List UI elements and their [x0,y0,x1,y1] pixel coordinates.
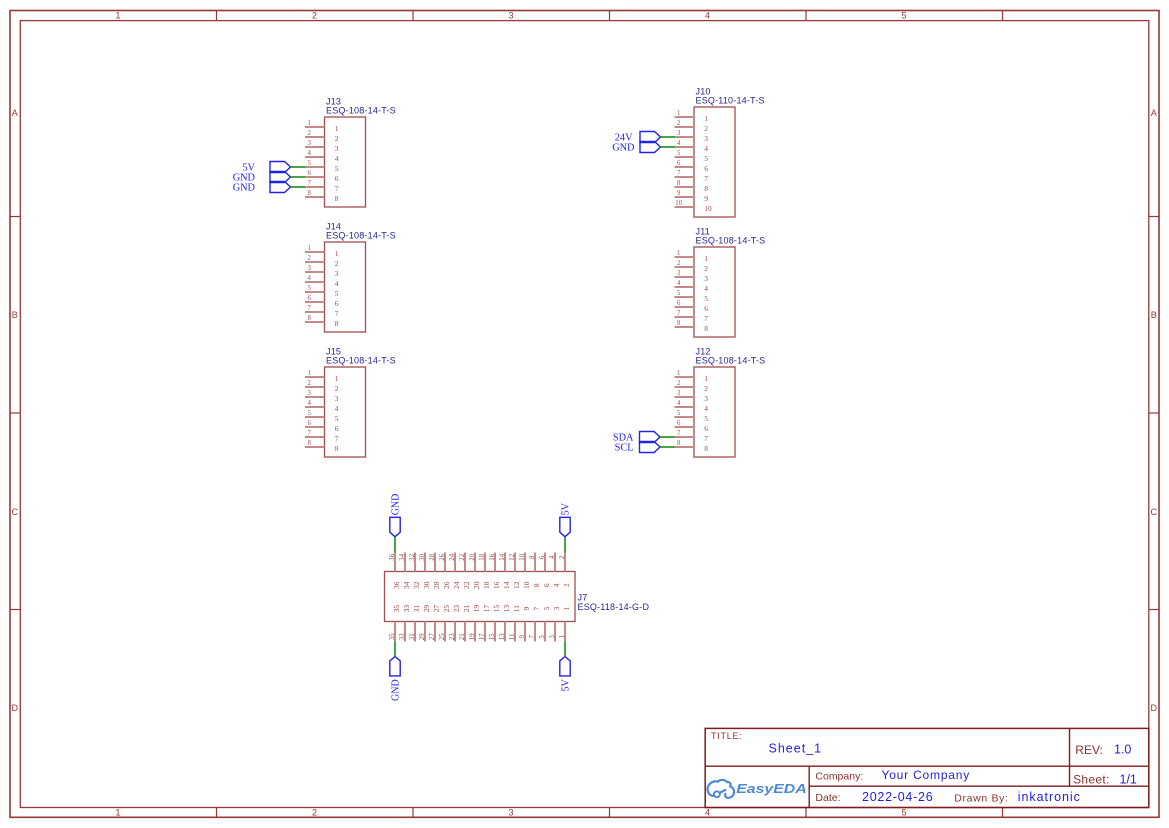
svg-text:10: 10 [522,581,531,589]
connector J14 (ESQ-108-14-T-S) [325,242,366,332]
J15 value ESQ-108-14-T-S [326,356,396,366]
svg-text:6: 6 [677,300,681,307]
J14 reference designator [326,222,341,232]
svg-text:28: 28 [429,553,436,560]
svg-text:25: 25 [439,633,446,640]
svg-text:7: 7 [677,310,681,317]
svg-text:5: 5 [704,154,708,163]
svg-text:11: 11 [509,634,516,641]
svg-text:4: 4 [335,404,339,413]
svg-text:20: 20 [469,553,476,560]
J10 reference designator [696,87,711,97]
svg-text:3: 3 [552,606,561,610]
svg-text:35: 35 [392,605,401,613]
svg-text:5: 5 [307,160,311,167]
svg-text:5: 5 [677,150,681,157]
svg-text:8: 8 [307,440,311,447]
svg-text:2: 2 [559,555,566,559]
svg-text:6: 6 [307,295,311,302]
net flag GND on J7 pin 35 [390,657,402,701]
svg-text:ESQ-108-14-T-S: ESQ-108-14-T-S [696,236,766,246]
svg-text:6: 6 [677,160,681,167]
svg-text:3: 3 [508,10,513,20]
svg-text:6: 6 [704,164,708,173]
svg-text:4: 4 [335,154,339,163]
svg-text:A: A [12,108,18,118]
svg-text:8: 8 [335,444,339,453]
svg-text:26: 26 [439,553,446,560]
svg-text:TITLE:: TITLE: [711,731,743,741]
svg-text:8: 8 [529,555,536,559]
svg-text:5: 5 [307,410,311,417]
svg-text:30: 30 [422,581,431,589]
J12 value ESQ-108-14-T-S [696,356,766,366]
J12 pin numbers [677,370,708,453]
wire net GND to J7 pin 35 [394,642,396,657]
svg-text:7: 7 [335,434,339,443]
svg-text:27: 27 [432,605,441,613]
svg-text:B: B [1151,310,1157,320]
svg-text:6: 6 [704,424,708,433]
svg-text:GND: GND [390,494,401,516]
J11 pin numbers [677,250,708,333]
connector J15 (ESQ-108-14-T-S) [325,367,366,457]
svg-text:24: 24 [449,553,456,560]
svg-text:22: 22 [459,553,466,560]
svg-text:5: 5 [677,290,681,297]
svg-text:1: 1 [335,374,339,383]
svg-text:2: 2 [335,384,339,393]
svg-text:13: 13 [502,605,511,613]
svg-text:2: 2 [307,255,311,262]
svg-text:32: 32 [412,581,421,589]
svg-text:6: 6 [307,420,311,427]
title block [705,728,1149,807]
net flag 5V on J7 pin 2 [560,502,572,537]
svg-text:GND: GND [390,679,401,701]
svg-text:SCL: SCL [615,442,634,453]
svg-text:6: 6 [307,170,311,177]
net flag SDA on J12 pin 7 [613,432,660,444]
svg-text:6: 6 [542,583,551,587]
svg-text:9: 9 [522,606,531,610]
J7 pin numbers [389,553,571,640]
J10 pins 1-10 [675,117,695,207]
svg-text:26: 26 [442,581,451,589]
svg-text:6: 6 [677,420,681,427]
svg-text:4: 4 [677,400,681,407]
svg-text:5V: 5V [560,679,571,692]
svg-text:4: 4 [307,150,311,157]
svg-text:16: 16 [492,581,501,589]
svg-text:Your Company: Your Company [882,768,971,782]
J11 pins 1-8 [675,257,695,327]
svg-text:6: 6 [539,555,546,559]
svg-text:ESQ-110-14-T-S: ESQ-110-14-T-S [696,96,765,106]
net flag GND on J10 pin 4 [612,142,660,154]
svg-text:B: B [12,310,18,320]
svg-text:23: 23 [449,633,456,640]
svg-text:1/1: 1/1 [1120,773,1137,787]
svg-text:2: 2 [335,134,339,143]
svg-text:8: 8 [704,324,708,333]
svg-text:ESQ-108-14-T-S: ESQ-108-14-T-S [326,356,396,366]
J13 reference designator [326,97,341,107]
svg-text:35: 35 [389,633,396,640]
svg-text:ESQ-108-14-T-S: ESQ-108-14-T-S [696,356,766,366]
svg-text:2: 2 [307,380,311,387]
J13 pins 1-8 [305,127,325,197]
svg-text:7: 7 [704,314,708,323]
net flag 5V on J13 pin 5 [242,162,290,174]
svg-text:7: 7 [677,430,681,437]
svg-text:7: 7 [704,174,708,183]
J15 reference designator [326,347,341,357]
svg-text:3: 3 [508,808,513,818]
svg-text:7: 7 [335,309,339,318]
svg-text:7: 7 [704,434,708,443]
wire net 5V to J7 pin 1 [564,642,566,657]
svg-text:1: 1 [307,370,310,377]
svg-text:8: 8 [307,315,311,322]
svg-text:4: 4 [704,144,708,153]
svg-text:3: 3 [307,390,311,397]
svg-text:4: 4 [677,140,681,147]
connector J11 (ESQ-108-14-T-S) [694,247,735,337]
svg-text:ESQ-118-14-G-D: ESQ-118-14-G-D [578,602,650,612]
svg-text:ESQ-108-14-T-S: ESQ-108-14-T-S [326,106,396,116]
svg-text:4: 4 [705,10,710,20]
svg-text:3: 3 [335,394,339,403]
svg-text:1: 1 [704,114,708,123]
svg-text:19: 19 [469,633,476,640]
svg-text:14: 14 [502,581,511,589]
svg-text:18: 18 [479,553,486,560]
svg-text:Drawn By:: Drawn By: [954,793,1008,805]
svg-text:GND: GND [612,142,635,153]
wire net 5V to J13 pin 5 [291,166,306,168]
svg-text:1: 1 [704,374,708,383]
svg-text:28: 28 [432,581,441,589]
J14 pins 1-8 [305,252,325,322]
svg-text:12: 12 [509,553,516,560]
svg-text:15: 15 [492,605,501,613]
svg-text:1: 1 [307,245,310,252]
svg-text:11: 11 [512,605,521,612]
svg-text:5: 5 [704,414,708,423]
connector J10 (ESQ-110-14-T-S) [694,107,735,217]
svg-text:3: 3 [677,130,681,137]
svg-text:3: 3 [704,274,708,283]
net flag GND on J7 pin 36 [390,494,402,537]
svg-text:30: 30 [419,553,426,560]
svg-text:15: 15 [489,633,496,640]
svg-text:19: 19 [472,605,481,613]
J7 value ESQ-118-14-G-D [578,602,650,612]
svg-text:34: 34 [399,553,406,560]
connector J7 (ESQ-118-14-G-D) [385,572,576,622]
svg-text:9: 9 [704,194,708,203]
svg-text:23: 23 [452,605,461,613]
svg-text:7: 7 [529,635,536,639]
svg-text:6: 6 [335,174,339,183]
svg-text:31: 31 [409,633,416,640]
svg-text:8: 8 [704,444,708,453]
svg-text:4: 4 [549,555,556,559]
svg-text:D: D [12,703,19,713]
svg-text:5: 5 [539,635,546,639]
svg-text:1: 1 [335,249,339,258]
svg-text:8: 8 [677,320,681,327]
svg-text:3: 3 [307,265,311,272]
J11 value ESQ-108-14-T-S [696,236,766,246]
wire net GND to J13 pin 7 [291,186,306,188]
J13 value ESQ-108-14-T-S [326,106,396,116]
svg-text:8: 8 [704,184,708,193]
svg-text:27: 27 [429,633,436,640]
svg-text:8: 8 [335,319,339,328]
svg-text:33: 33 [402,605,411,613]
svg-text:C: C [12,507,19,517]
svg-text:25: 25 [442,605,451,613]
svg-text:3: 3 [335,144,339,153]
svg-text:1: 1 [335,124,339,133]
wire net GND to J7 pin 36 [394,537,396,553]
svg-text:3: 3 [335,269,339,278]
svg-text:4: 4 [552,583,561,587]
J10 value ESQ-110-14-T-S [696,96,765,106]
svg-text:ESQ-108-14-T-S: ESQ-108-14-T-S [326,231,396,241]
J7 top pins (even 36-2) [395,553,565,572]
net flag SCL on J12 pin 8 [615,442,660,454]
svg-text:7: 7 [677,170,681,177]
svg-text:21: 21 [462,605,471,613]
wire net SCL to J12 pin 8 [660,446,675,448]
svg-text:2: 2 [335,259,339,268]
J7 bottom pins (odd 35-1) [395,622,565,642]
svg-text:14: 14 [499,553,506,560]
svg-text:5: 5 [901,10,906,20]
svg-text:Sheet_1: Sheet_1 [769,742,823,756]
svg-text:6: 6 [704,304,708,313]
connector J12 (ESQ-108-14-T-S) [694,367,735,457]
svg-text:5: 5 [704,294,708,303]
svg-text:4: 4 [307,275,311,282]
svg-text:5: 5 [335,289,339,298]
svg-text:inkatronic: inkatronic [1018,790,1081,804]
svg-text:1: 1 [115,10,120,20]
svg-text:2: 2 [704,384,708,393]
svg-text:8: 8 [677,440,681,447]
svg-text:6: 6 [335,424,339,433]
svg-text:A: A [1151,108,1157,118]
svg-text:4: 4 [704,284,708,293]
svg-text:8: 8 [532,583,541,587]
svg-text:32: 32 [409,553,416,560]
svg-text:10: 10 [519,553,526,560]
svg-text:2: 2 [312,808,317,818]
J15 pin numbers [307,370,338,453]
svg-text:5: 5 [901,808,906,818]
svg-text:2: 2 [677,380,681,387]
svg-text:16: 16 [489,553,496,560]
svg-text:8: 8 [677,180,681,187]
svg-text:1: 1 [677,370,680,377]
svg-text:1.0: 1.0 [1114,743,1131,757]
svg-text:7: 7 [307,430,311,437]
svg-text:Company:: Company: [815,770,863,782]
svg-text:1: 1 [562,606,571,610]
svg-text:36: 36 [389,553,396,560]
svg-text:Sheet:: Sheet: [1073,773,1110,787]
svg-text:1: 1 [677,110,680,117]
svg-text:2: 2 [704,264,708,273]
svg-text:36: 36 [392,581,401,589]
svg-text:8: 8 [335,194,339,203]
wire net 24V to J10 pin 3 [661,136,676,138]
svg-text:2: 2 [677,260,681,267]
svg-text:29: 29 [419,633,426,640]
svg-text:J7: J7 [578,593,588,603]
svg-text:1: 1 [677,250,680,257]
svg-text:29: 29 [422,605,431,613]
svg-text:22: 22 [462,581,471,589]
net flag GND on J13 pin 6 [233,172,291,184]
J15 pins 1-8 [305,377,325,447]
svg-text:33: 33 [399,633,406,640]
svg-text:C: C [1151,507,1158,517]
svg-text:21: 21 [459,633,466,640]
svg-text:13: 13 [499,633,506,640]
svg-text:10: 10 [675,200,682,207]
svg-text:5: 5 [335,164,339,173]
svg-text:3: 3 [549,635,556,639]
svg-text:3: 3 [704,134,708,143]
svg-text:5: 5 [335,414,339,423]
wire net SDA to J12 pin 7 [660,436,675,438]
svg-text:3: 3 [677,390,681,397]
svg-text:24: 24 [452,581,461,589]
svg-text:5: 5 [307,285,311,292]
svg-text:EasyEDA: EasyEDA [736,783,806,797]
svg-text:17: 17 [479,633,486,640]
svg-text:2: 2 [562,583,571,587]
net flag 5V on J7 pin 1 [560,657,572,692]
svg-text:2: 2 [677,120,681,127]
svg-text:4: 4 [705,808,710,818]
svg-text:4: 4 [307,400,311,407]
svg-text:31: 31 [412,605,421,613]
svg-text:2022-04-26: 2022-04-26 [862,790,933,804]
J13 pin numbers [307,120,338,203]
svg-text:3: 3 [677,270,681,277]
net flag GND on J13 pin 7 [233,182,291,194]
svg-text:4: 4 [704,404,708,413]
J14 value ESQ-108-14-T-S [326,231,396,241]
svg-text:10: 10 [704,204,712,213]
svg-text:2: 2 [704,124,708,133]
J10 pin numbers [675,110,712,213]
J11 reference designator [696,227,710,237]
svg-text:20: 20 [472,581,481,589]
EasyEDA logo [708,780,807,798]
J12 pins 1-8 [675,377,695,447]
J14 pin numbers [307,245,338,328]
svg-text:D: D [1151,703,1158,713]
svg-text:4: 4 [335,279,339,288]
svg-text:1: 1 [704,254,708,263]
svg-text:3: 3 [704,394,708,403]
svg-text:2: 2 [307,130,311,137]
svg-text:9: 9 [677,190,681,197]
svg-text:1: 1 [559,635,566,638]
svg-text:7: 7 [307,305,311,312]
net flag 24V on J10 pin 3 [615,132,661,144]
svg-text:7: 7 [532,606,541,610]
svg-text:7: 7 [307,180,311,187]
svg-text:8: 8 [307,190,311,197]
svg-text:2: 2 [312,10,317,20]
svg-text:1: 1 [115,808,120,818]
svg-text:4: 4 [677,280,681,287]
connector J13 (ESQ-108-14-T-S) [325,117,366,207]
svg-text:GND: GND [233,182,256,193]
svg-text:Date:: Date: [815,792,840,804]
svg-text:18: 18 [482,581,491,589]
svg-text:12: 12 [512,581,521,589]
svg-text:3: 3 [307,140,311,147]
svg-text:17: 17 [482,605,491,613]
svg-text:5V: 5V [560,502,571,515]
svg-text:6: 6 [335,299,339,308]
svg-text:5: 5 [542,606,551,610]
wire net GND to J10 pin 4 [661,146,676,148]
J7 reference designator [578,593,588,603]
svg-text:34: 34 [402,581,411,589]
svg-text:REV:: REV: [1075,743,1103,757]
wire net GND to J13 pin 6 [291,176,306,178]
svg-text:5: 5 [677,410,681,417]
svg-text:7: 7 [335,184,339,193]
svg-text:9: 9 [519,635,526,639]
J12 reference designator [696,347,711,357]
svg-text:1: 1 [307,120,310,127]
wire net 5V to J7 pin 2 [564,537,566,553]
